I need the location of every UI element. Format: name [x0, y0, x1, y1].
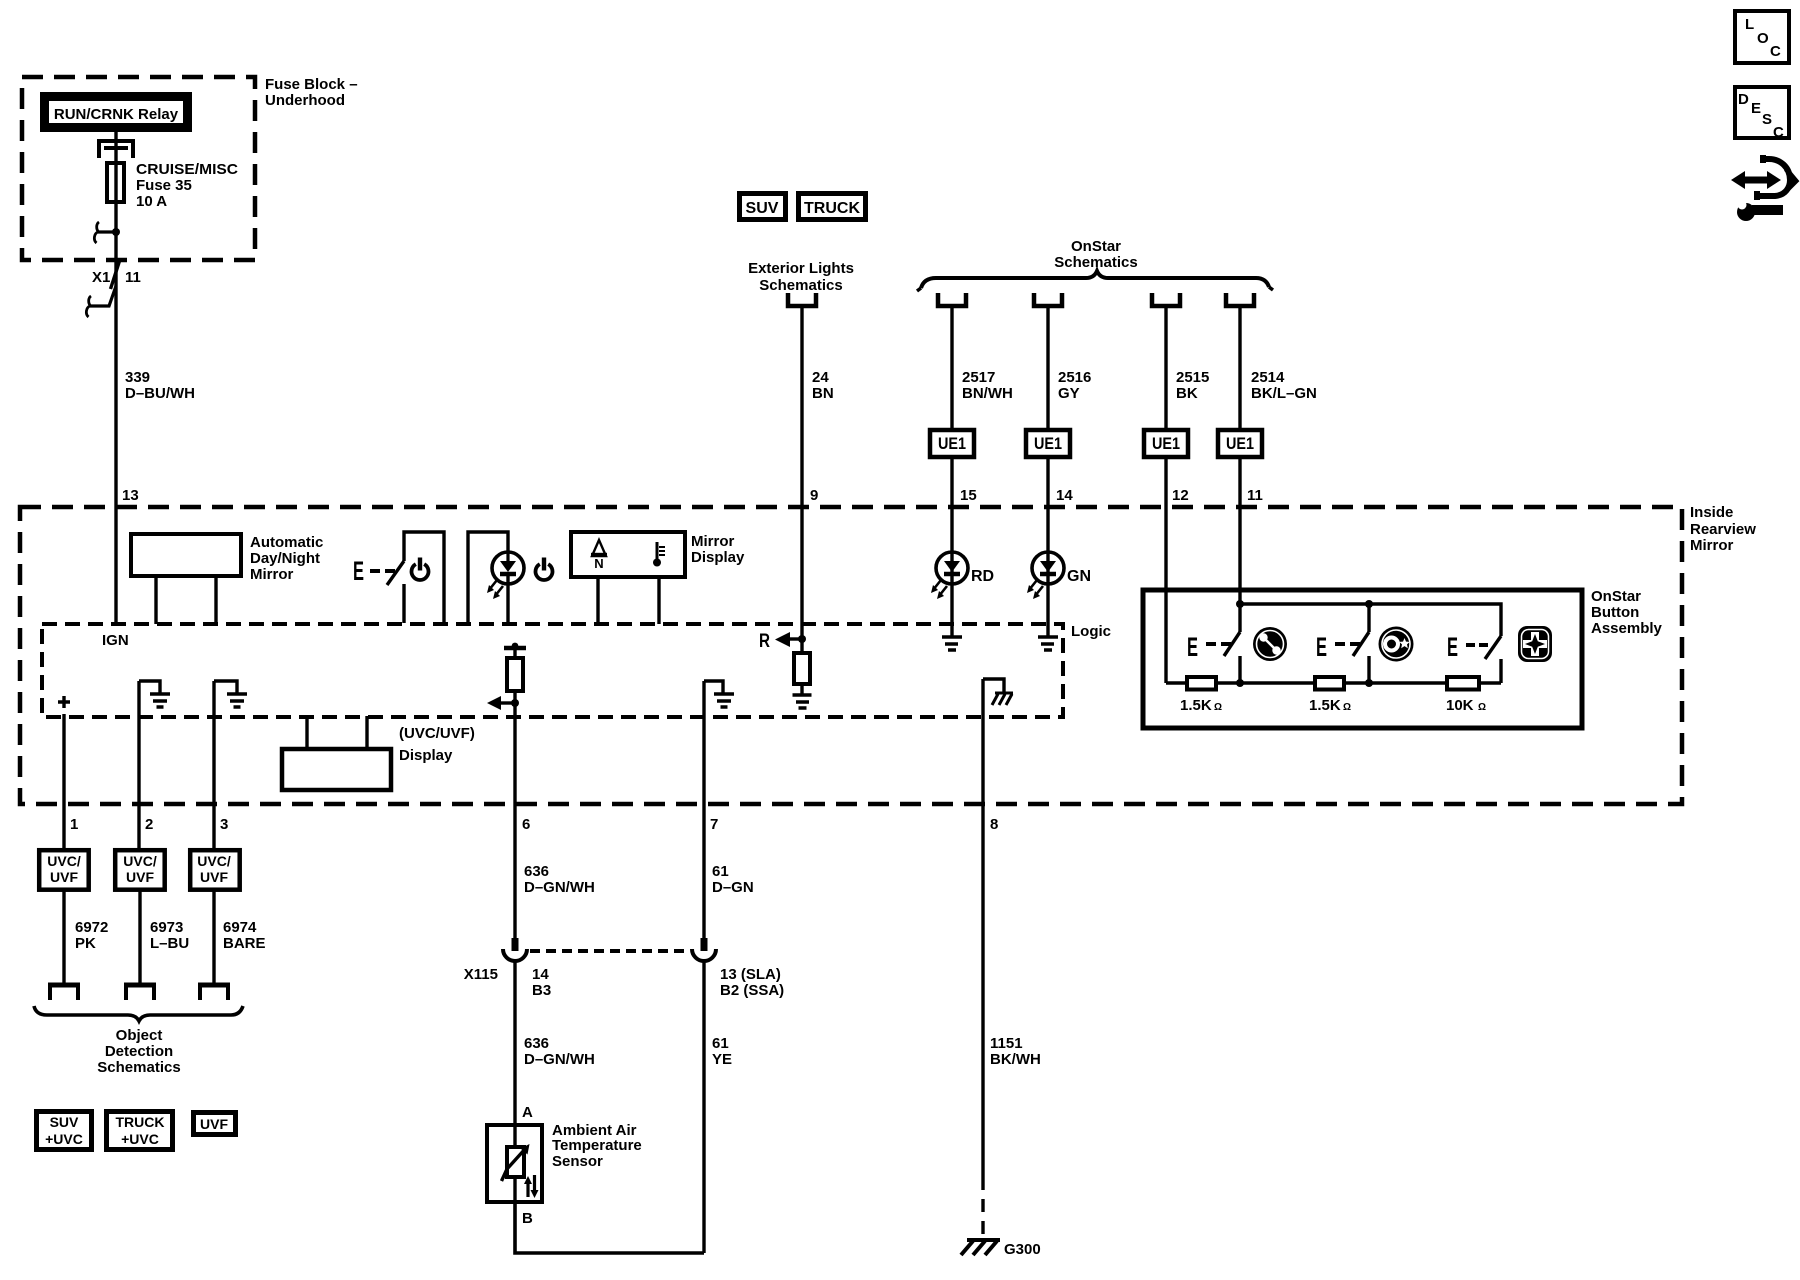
- svg-text:UVF: UVF: [126, 869, 154, 885]
- svg-text:PK: PK: [75, 935, 96, 952]
- svg-text:N: N: [594, 556, 603, 571]
- svg-text:13: 13: [122, 487, 139, 504]
- svg-text:6972: 6972: [75, 919, 108, 936]
- svg-text:BN: BN: [812, 385, 834, 402]
- svg-text:339: 339: [125, 369, 150, 386]
- svg-text:B2 (SSA): B2 (SSA): [720, 982, 784, 999]
- svg-text:TRUCK: TRUCK: [116, 1114, 165, 1130]
- svg-text:12: 12: [1172, 487, 1189, 504]
- svg-text:R: R: [759, 631, 770, 652]
- svg-text:Ω: Ω: [1343, 702, 1351, 713]
- svg-text:7: 7: [710, 816, 718, 833]
- svg-text:BK/L–GN: BK/L–GN: [1251, 385, 1317, 402]
- svg-text:11: 11: [1247, 487, 1263, 504]
- svg-text:D–GN: D–GN: [712, 879, 754, 896]
- svg-text:RD: RD: [971, 568, 994, 585]
- svg-text:(UVC/UVF): (UVC/UVF): [399, 725, 475, 742]
- svg-text:B: B: [522, 1210, 533, 1227]
- svg-text:G300: G300: [1004, 1241, 1041, 1258]
- svg-text:Inside: Inside: [1690, 504, 1733, 521]
- svg-text:1.5K: 1.5K: [1180, 697, 1212, 714]
- svg-text:2517: 2517: [962, 369, 995, 386]
- svg-text:UVF: UVF: [200, 869, 228, 885]
- svg-text:Schematics: Schematics: [759, 277, 842, 294]
- svg-text:Logic: Logic: [1071, 623, 1111, 640]
- svg-text:Assembly: Assembly: [1591, 620, 1663, 637]
- svg-text:Object: Object: [116, 1027, 163, 1044]
- svg-text:CRUISE/MISC: CRUISE/MISC: [136, 161, 238, 178]
- svg-text:GN: GN: [1067, 568, 1091, 585]
- svg-text:11: 11: [125, 269, 141, 286]
- svg-text:Day/Night: Day/Night: [250, 550, 320, 567]
- svg-text:GY: GY: [1058, 385, 1080, 402]
- svg-text:14: 14: [1056, 487, 1073, 504]
- svg-text:Button: Button: [1591, 604, 1639, 621]
- svg-text:UE1: UE1: [1226, 434, 1254, 453]
- svg-text:8: 8: [990, 816, 998, 833]
- svg-text:BK: BK: [1176, 385, 1198, 402]
- svg-text:Mirror: Mirror: [1690, 537, 1734, 554]
- svg-text:1: 1: [70, 816, 78, 833]
- svg-text:Underhood: Underhood: [265, 92, 345, 109]
- svg-text:UVC/: UVC/: [47, 853, 81, 869]
- svg-text:Automatic: Automatic: [250, 534, 323, 551]
- svg-text:Ω: Ω: [1478, 702, 1486, 713]
- svg-text:TRUCK: TRUCK: [804, 200, 860, 217]
- svg-text:Mirror: Mirror: [250, 566, 294, 583]
- svg-text:Display: Display: [399, 747, 453, 764]
- svg-text:SUV: SUV: [50, 1114, 79, 1130]
- svg-text:10K: 10K: [1446, 697, 1474, 714]
- svg-text:14: 14: [532, 966, 549, 983]
- svg-text:Exterior Lights: Exterior Lights: [748, 260, 854, 277]
- svg-text:D–GN/WH: D–GN/WH: [524, 879, 595, 896]
- svg-text:A: A: [522, 1104, 533, 1121]
- svg-text:Fuse Block –: Fuse Block –: [265, 76, 358, 93]
- svg-text:24: 24: [812, 369, 829, 386]
- svg-text:2514: 2514: [1251, 369, 1285, 386]
- svg-text:3: 3: [220, 816, 228, 833]
- svg-text:Sensor: Sensor: [552, 1153, 603, 1170]
- svg-text:UVF: UVF: [50, 869, 78, 885]
- svg-text:15: 15: [960, 487, 977, 504]
- svg-text:UVF: UVF: [200, 1116, 228, 1132]
- svg-text:BN/WH: BN/WH: [962, 385, 1013, 402]
- svg-text:Display: Display: [691, 549, 745, 566]
- svg-text:BARE: BARE: [223, 935, 266, 952]
- svg-text:OnStar: OnStar: [1591, 588, 1641, 605]
- svg-text:6: 6: [522, 816, 530, 833]
- svg-text:E: E: [1447, 632, 1458, 662]
- svg-text:Detection: Detection: [105, 1043, 173, 1060]
- svg-text:61: 61: [712, 1035, 729, 1052]
- svg-text:Schematics: Schematics: [1054, 254, 1137, 271]
- svg-text:D–BU/WH: D–BU/WH: [125, 385, 195, 402]
- svg-text:X115: X115: [464, 966, 498, 983]
- svg-text:+UVC: +UVC: [121, 1131, 159, 1147]
- svg-text:IGN: IGN: [102, 632, 129, 649]
- svg-text:D–GN/WH: D–GN/WH: [524, 1051, 595, 1068]
- svg-text:C: C: [1773, 124, 1784, 141]
- svg-text:2516: 2516: [1058, 369, 1091, 386]
- svg-text:B3: B3: [532, 982, 551, 999]
- svg-text:UE1: UE1: [938, 434, 966, 453]
- svg-text:X1: X1: [92, 269, 110, 286]
- svg-text:E: E: [1316, 632, 1327, 662]
- svg-text:10 A: 10 A: [136, 193, 167, 210]
- svg-text:L–BU: L–BU: [150, 935, 189, 952]
- svg-text:D: D: [1738, 91, 1749, 108]
- svg-text:OnStar: OnStar: [1071, 238, 1121, 255]
- svg-text:E: E: [353, 556, 364, 586]
- svg-text:61: 61: [712, 863, 729, 880]
- svg-text:13 (SLA): 13 (SLA): [720, 966, 781, 983]
- svg-text:UE1: UE1: [1152, 434, 1180, 453]
- svg-text:Ω: Ω: [1214, 702, 1222, 713]
- svg-text:636: 636: [524, 1035, 549, 1052]
- svg-text:S: S: [1762, 111, 1772, 128]
- svg-text:E: E: [1751, 100, 1761, 117]
- svg-text:YE: YE: [712, 1051, 732, 1068]
- svg-text:1151: 1151: [990, 1035, 1023, 1052]
- svg-text:6973: 6973: [150, 919, 183, 936]
- svg-text:1.5K: 1.5K: [1309, 697, 1341, 714]
- svg-text:Schematics: Schematics: [97, 1059, 180, 1076]
- svg-text:636: 636: [524, 863, 549, 880]
- svg-text:RUN/CRNK Relay: RUN/CRNK Relay: [54, 106, 179, 123]
- svg-text:O: O: [1757, 30, 1769, 47]
- svg-text:Temperature: Temperature: [552, 1137, 642, 1154]
- svg-text:L: L: [1745, 16, 1754, 33]
- svg-text:2515: 2515: [1176, 369, 1209, 386]
- svg-text:UVC/: UVC/: [197, 853, 231, 869]
- svg-text:Rearview: Rearview: [1690, 521, 1756, 538]
- svg-text:UVC/: UVC/: [123, 853, 157, 869]
- svg-text:SUV: SUV: [746, 200, 779, 217]
- svg-text:BK/WH: BK/WH: [990, 1051, 1041, 1068]
- svg-text:Fuse 35: Fuse 35: [136, 177, 192, 194]
- svg-text:2: 2: [145, 816, 153, 833]
- svg-text:Mirror: Mirror: [691, 533, 735, 550]
- svg-text:6974: 6974: [223, 919, 257, 936]
- svg-text:+UVC: +UVC: [45, 1131, 83, 1147]
- svg-text:E: E: [1187, 632, 1198, 662]
- svg-text:9: 9: [810, 487, 818, 504]
- svg-text:UE1: UE1: [1034, 434, 1062, 453]
- svg-text:C: C: [1770, 43, 1781, 60]
